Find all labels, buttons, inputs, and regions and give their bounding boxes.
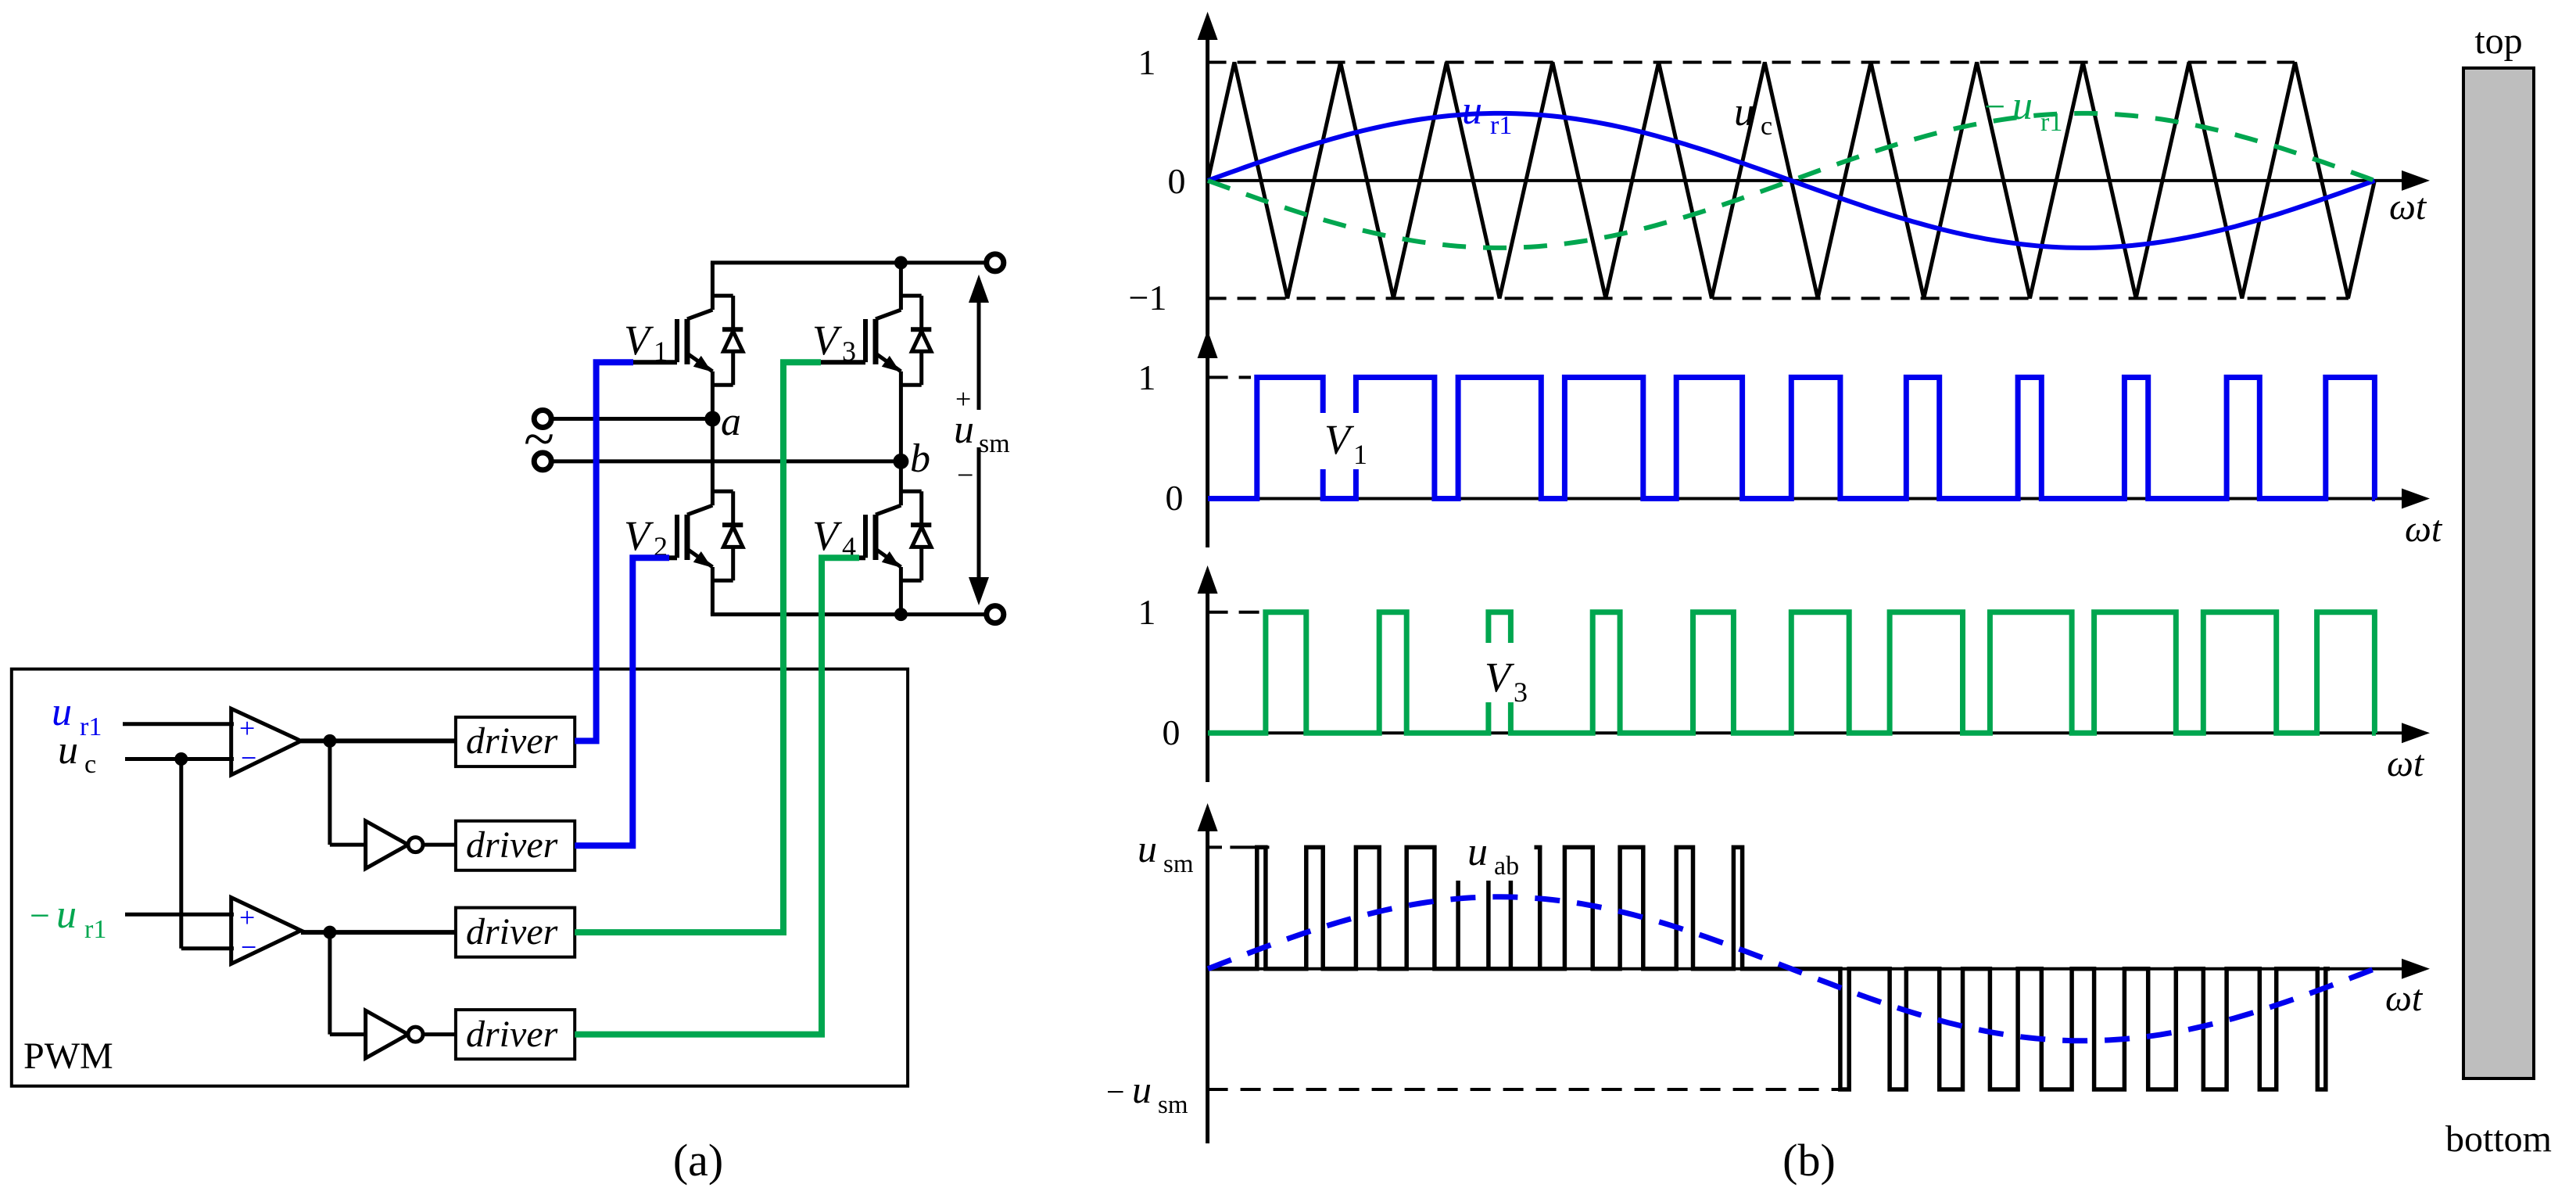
svg-text:PWM: PWM [23,1035,113,1077]
wire -u_r1 input [125,913,234,917]
DC- terminal [987,606,1004,623]
driver box 2 [456,821,575,870]
inverter 2 [366,1010,408,1058]
u_c junction [174,752,188,766]
svg-text:bottom: bottom [2445,1118,2552,1160]
panel3 x-axis [1208,731,2404,734]
u_ab fundamental (blue dashed) [1208,897,2373,1041]
panel2 x-axis [1208,497,2404,501]
svg-text:V: V [812,317,843,364]
wire u_r1 input [123,722,234,726]
label V3 [1480,643,1533,702]
wire driver1 to V1 gate (blue) [575,362,633,741]
V1 gate waveform (blue) [1208,378,2375,499]
label u_ab [1442,804,1524,881]
carrier u_c triangle wave [1208,63,2374,299]
node comparator1 output [323,734,336,748]
svg-text:top: top [2474,20,2522,62]
svg-text:−: − [957,459,973,492]
panel2 1 dashed [1208,376,1251,379]
PWM box [12,669,908,1086]
transistor V3 [899,263,903,310]
bottom rail node [894,608,908,621]
svg-text:driver: driver [466,911,558,953]
svg-text:V: V [624,317,654,364]
label V1 [1319,413,1380,469]
svg-text:1: 1 [1353,439,1367,470]
svg-text:ωt: ωt [2385,978,2424,1019]
wire node a to V2 [711,419,715,459]
svg-text:sm: sm [979,429,1010,458]
panel2 y-axis [1206,353,1209,547]
svg-text:0: 0 [1166,478,1184,518]
panel1 x-axis [1208,179,2404,182]
wire u_c input [125,757,234,761]
reference sine -u_r1 (green dashed) [1208,113,2374,248]
svg-text:u: u [58,728,78,773]
svg-text:0: 0 [1163,712,1181,752]
wire comparator2 output [301,930,456,935]
svg-text:driver: driver [466,1014,558,1055]
svg-text:u: u [1132,1068,1152,1111]
svg-text:1: 1 [1138,42,1156,82]
node comparator2 output [323,926,336,939]
svg-text:V: V [624,512,654,559]
svg-text:b: b [910,436,930,481]
wire comparator1 output [301,738,456,743]
panel4 u_sm tick/dash [1208,845,1222,849]
AC terminal upper [534,411,551,428]
svg-text:1: 1 [1138,357,1156,397]
panel4 y-axis [1206,827,1209,1143]
transistor V1 [711,263,715,310]
u_sm label [949,410,1012,447]
svg-text:−1: −1 [1129,278,1167,318]
panel4 x-axis [1208,967,2404,971]
panel4 -u_sm dashed [1208,1088,1839,1091]
svg-text:c: c [1761,112,1772,141]
AC terminal lower [534,453,551,470]
V3 gate waveform (green) [1208,612,2376,733]
svg-text:u: u [2012,84,2033,128]
svg-text:ωt: ωt [2387,743,2425,784]
comparator 2 [231,898,301,964]
H-bridge top rail [712,260,987,264]
svg-text:u: u [1467,830,1488,874]
svg-text:u: u [1462,88,1482,133]
transistor V2 [711,458,715,505]
u_sm measurement arrow [977,289,981,590]
svg-text:u: u [1138,827,1157,870]
wire to inverter 2 [328,932,331,1035]
svg-text:3: 3 [842,336,856,367]
svg-text:(b): (b) [1782,1135,1836,1186]
transistor V4 [899,458,903,505]
gate lead V4 [856,555,865,560]
svg-text:ωt: ωt [2405,508,2443,550]
DC+ terminal [987,254,1004,271]
H-bridge bottom rail [712,612,987,616]
svg-text:1: 1 [654,336,668,367]
panel1 y-axis [1206,35,1209,335]
node b [893,454,908,469]
panel1 +1 dashed level [1208,61,2295,64]
u_ab waveform [1208,847,2330,1089]
svg-text:r1: r1 [80,712,102,741]
svg-text:3: 3 [1514,676,1528,708]
wire driver3 to V3 gate (green) [575,362,821,932]
svg-text:r1: r1 [84,915,106,944]
driver box 4 [456,1010,575,1059]
gate lead V3 [818,360,865,364]
wire driver2 to V2 gate (blue) [575,558,669,845]
svg-text:c: c [84,750,96,779]
svg-text:sm: sm [1158,1091,1188,1119]
u_ab narrow pulse strokes [1456,847,1460,968]
svg-text:+: + [239,712,255,744]
svg-text:ωt: ωt [2389,186,2427,228]
svg-text:u: u [1734,90,1754,135]
svg-text:driver: driver [466,720,558,762]
svg-text:V: V [812,512,843,559]
svg-text:u: u [56,892,77,937]
driver box 3 [456,908,575,957]
node a [704,411,720,427]
svg-text:u: u [954,407,974,452]
svg-text:−: − [1106,1075,1125,1111]
inverter 1 [366,821,408,869]
reference sine u_r1 (blue) [1208,113,2374,248]
svg-text:a: a [721,400,741,444]
driver box 1 [456,717,575,766]
wire driver4 to V4 gate (green) [575,558,859,1034]
wire u_c to comparator2 [179,759,183,949]
panel3 y-axis [1206,589,1209,782]
wire to inverter 1 [328,741,331,845]
comparator 1 [231,709,301,775]
gray bar [2463,68,2534,1078]
svg-text:1: 1 [1138,592,1156,632]
svg-text:+: + [239,902,255,933]
svg-text:0: 0 [1168,161,1186,201]
svg-text:sm: sm [1163,850,1194,878]
svg-text:ab: ab [1494,852,1519,881]
top rail node [894,256,908,269]
svg-text:−: − [1984,86,2005,127]
svg-text:r1: r1 [1490,111,1512,140]
gate lead V2 [666,555,677,560]
svg-text:r1: r1 [2040,108,2062,137]
wire AC to node b [551,459,901,463]
svg-text:(a): (a) [673,1135,723,1186]
svg-text:−: − [30,895,50,935]
svg-text:~: ~ [524,407,554,470]
svg-text:driver: driver [466,824,558,866]
gate lead V1 [630,360,677,364]
panel1 -1 dashed level [1208,297,2348,300]
panel3 1 dashed [1208,611,1267,614]
svg-text:−: − [241,742,256,773]
svg-text:−: − [241,931,256,963]
wire V3 emitter to node b [899,419,903,461]
wire AC to node a [551,417,713,421]
